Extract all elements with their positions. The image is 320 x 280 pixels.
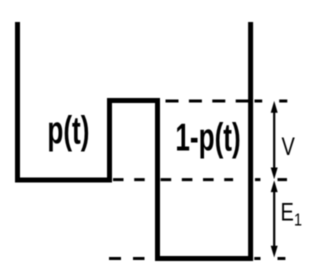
svg-text:V: V bbox=[282, 133, 295, 161]
svg-text:E: E bbox=[281, 199, 294, 227]
svg-text:p(t): p(t) bbox=[47, 109, 89, 152]
svg-text:1: 1 bbox=[294, 210, 302, 230]
svg-text:1-p(t): 1-p(t) bbox=[175, 117, 240, 160]
